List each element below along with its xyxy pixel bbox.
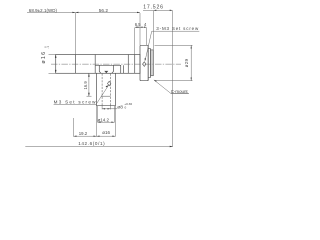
set screw recess cup bbox=[99, 65, 113, 73]
svg-text:C-mount: C-mount bbox=[171, 89, 189, 94]
arrow 17.526 right bbox=[170, 10, 173, 11]
ø16 extension ticks bbox=[49, 55, 56, 74]
ø14.2 extension lines bbox=[98, 106, 115, 123]
extension line x=153.3 top bbox=[152, 11, 154, 50]
arrow 16.9 bottom bbox=[88, 93, 90, 96]
internal shoulder line bbox=[95, 65, 123, 73]
mount block ring bbox=[140, 45, 148, 80]
arrow ø14.2 right bbox=[111, 122, 114, 123]
svg-text:16.9: 16.9 bbox=[83, 81, 88, 90]
arrow ø8 right bbox=[108, 108, 111, 109]
svg-text:142.6(0/1): 142.6(0/1) bbox=[78, 141, 105, 146]
svg-text:ø8: ø8 bbox=[117, 104, 123, 110]
arrow 4 right bbox=[144, 27, 147, 28]
svg-text:56.2: 56.2 bbox=[99, 8, 109, 13]
arrow 6.5 left bbox=[135, 27, 138, 28]
arrow M3 leader bbox=[106, 85, 109, 87]
extension line x=96.5 bottom bbox=[96, 106, 98, 137]
text ø16 0/-1 rotated bbox=[41, 46, 50, 64]
16.9 bottom tick bbox=[87, 95, 92, 97]
dimension line WD 68.9 bbox=[27, 11, 75, 13]
extension line image plane x=172.7 bbox=[172, 11, 174, 147]
arrow WD right bbox=[72, 12, 75, 13]
arrow ø14.2 left bbox=[98, 122, 101, 123]
svg-text:ø16: ø16 bbox=[41, 51, 47, 64]
arrow 142.6 right bbox=[170, 146, 173, 147]
ø29 dimension line bbox=[190, 45, 192, 80]
extension line x=115.4 bottom bbox=[114, 106, 116, 137]
dimension line 17.526 bbox=[143, 9, 173, 11]
extension line x=140 top bbox=[139, 13, 141, 45]
extension line x=134.7 for 6.5 bbox=[134, 28, 136, 55]
horizontal centerline bbox=[51, 63, 181, 65]
svg-text:17.526: 17.526 bbox=[143, 5, 164, 11]
arrow 19.2 left bbox=[74, 136, 77, 137]
arrow 16.9 top bbox=[88, 73, 90, 76]
arrow ø29 bottom bbox=[191, 78, 192, 81]
svg-text:M3 Set screw: M3 Set screw bbox=[54, 99, 97, 104]
barrel division line x=128.3 bbox=[127, 55, 129, 74]
arrow ø16 bottom left bbox=[97, 136, 100, 137]
barrel division line x=75.4 bbox=[74, 55, 76, 74]
arrow 3-M3 leader bbox=[145, 58, 146, 61]
arrow 19.2 right bbox=[94, 136, 97, 137]
svg-text:ø14.2: ø14.2 bbox=[98, 117, 110, 122]
hidden seat line bbox=[101, 95, 111, 97]
svg-text:ø29: ø29 bbox=[184, 58, 189, 67]
arrow 56.2 left bbox=[75, 12, 78, 13]
dimension line 56.2 bbox=[75, 11, 140, 13]
block groove line x=148.2 bbox=[147, 45, 149, 80]
arrow ø16 bottom right bbox=[112, 136, 115, 137]
arrow 4 left bbox=[140, 27, 143, 28]
C-mount underline and leader bbox=[154, 80, 189, 94]
svg-text:-1: -1 bbox=[46, 46, 50, 49]
barrel division line x=95.2 bbox=[94, 55, 96, 74]
flange lip bbox=[148, 49, 150, 78]
ø14.2 dimension line bbox=[98, 121, 115, 123]
ø8 extension lines bbox=[102, 106, 110, 110]
svg-text:19.2: 19.2 bbox=[79, 131, 88, 136]
16.9 dimension line bbox=[88, 73, 90, 96]
set screw diamond on stem bbox=[108, 81, 111, 85]
dimension line 6.5 and 4 bbox=[135, 26, 147, 28]
set screw tip triangle bbox=[104, 71, 108, 73]
dimension line 142.6 bbox=[25, 146, 172, 148]
arrow 56.2 right bbox=[137, 12, 140, 13]
barrel division line x=134.7 bbox=[134, 55, 136, 74]
ø8 dimension line bbox=[102, 108, 117, 110]
stem (camera port tube) bbox=[97, 73, 116, 105]
svg-text:68.9±2.1(WD): 68.9±2.1(WD) bbox=[29, 8, 58, 13]
bore hidden line left bbox=[101, 74, 103, 106]
dimension line 19.2 and ø16 bbox=[74, 135, 116, 137]
svg-text:3-M3 Set screw: 3-M3 Set screw bbox=[156, 26, 199, 31]
3-M3 label underline and leader bbox=[145, 31, 199, 60]
svg-text:6.5: 6.5 bbox=[135, 22, 141, 27]
set screw diamond on block bbox=[143, 62, 146, 67]
arrow ø16 left top bbox=[55, 55, 57, 58]
arrow 6.5 right bbox=[138, 27, 141, 28]
ø16 left dimension on edge bbox=[55, 55, 57, 74]
bore hidden line right bbox=[110, 74, 112, 106]
svg-text:0: 0 bbox=[125, 106, 127, 110]
ø29 extension bottom bbox=[155, 80, 193, 82]
arrow 17.526 left bbox=[153, 10, 156, 11]
C-mount thread band bbox=[151, 50, 154, 76]
extension line x=73.5 bbox=[73, 118, 75, 137]
extension line x=75.4 top bbox=[74, 13, 76, 55]
arrow ø16 left bottom bbox=[55, 70, 57, 73]
M3 label underline and leader bbox=[54, 85, 109, 104]
svg-text:ø16: ø16 bbox=[102, 130, 110, 135]
arrow ø29 top bbox=[191, 45, 192, 48]
extension line x=147.8 bbox=[146, 28, 148, 46]
ø29 extension top bbox=[155, 44, 193, 46]
barrel outline bbox=[56, 55, 140, 74]
arrow C-mount leader bbox=[154, 80, 157, 82]
arrow ø8 left bbox=[102, 108, 105, 109]
